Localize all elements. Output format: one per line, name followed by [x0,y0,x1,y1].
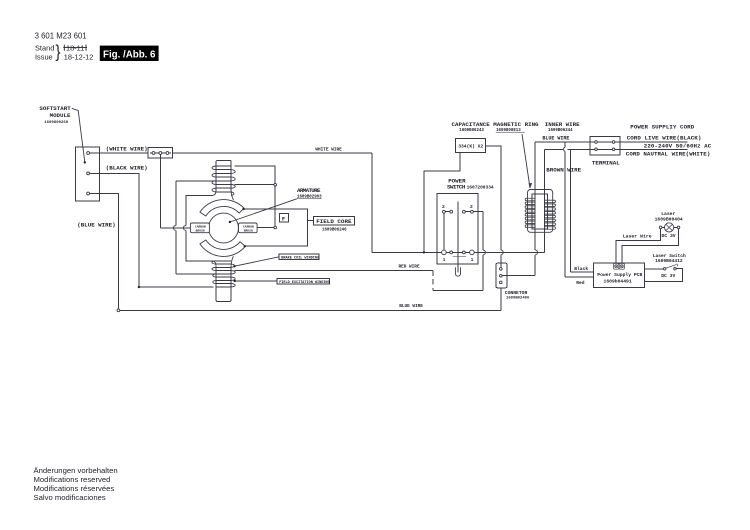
svg-text:}: } [56,43,62,62]
laser lamp pins [659,226,662,229]
svg-text:Power Supply PCB: Power Supply PCB [597,272,642,278]
svg-text:POWER SUPPLIY CORD: POWER SUPPLIY CORD [630,124,694,131]
lower winding left loops [212,261,216,284]
junction dot white wire capacitor node [423,251,425,253]
svg-text:INNER WIRE: INNER WIRE [545,121,580,128]
node wire from upper arc to field core [244,209,308,246]
hop of switch right vertical over main wire [483,250,485,255]
svg-text:Stand: Stand [35,44,54,53]
field arc lower [200,240,245,256]
brush right box [239,223,258,233]
motor core column upper section [216,160,231,191]
capacitor left lead [424,152,460,252]
svg-text:1609B00404: 1609B00404 [655,217,683,223]
softstart leader line [72,108,85,162]
lower winding right loops [231,264,235,287]
svg-text:334(K) X2: 334(K) X2 [458,143,483,149]
svg-text:F: F [282,215,286,222]
svg-text:CARBON: CARBON [195,226,206,229]
upper winding left loops [212,166,216,192]
svg-text:CONNETOR: CONNETOR [505,290,528,296]
junction dot field excitation leader [234,280,236,282]
magnetic ring inner box [532,194,548,229]
pcb laser terminal 1 [614,263,619,269]
svg-text:1609800260: 1609800260 [44,121,69,125]
wire red from lower winding [234,270,432,272]
softstart module box [75,147,99,201]
laser feed vertical from row2 (black to pcb) [570,149,572,272]
lower winding rungs [216,261,231,287]
svg-text:1609b04491: 1609b04491 [604,279,632,285]
junction dot black wire corner [138,286,140,288]
svg-text:CORD LIVE WIRE(BLACK): CORD LIVE WIRE(BLACK) [627,135,702,142]
core top-right flare curl [231,191,233,200]
svg-text:(BLACK WIRE): (BLACK WIRE) [106,165,148,172]
svg-text:BLUE WIRE: BLUE WIRE [542,136,569,142]
svg-text:MAGNETIC RING: MAGNETIC RING [493,121,539,128]
wire blue from ring to terminal [535,141,595,143]
field excitation leader [235,280,278,282]
svg-text:MODULE: MODULE [50,112,71,119]
switch lower terminals [442,250,447,255]
brake coil winding label box [279,254,319,260]
svg-text:CAPACITANCE: CAPACITANCE [452,121,491,128]
yoke hop over brush wire [183,226,185,231]
svg-text:FIELD EXCITATION WINDING: FIELD EXCITATION WINDING [279,281,329,285]
svg-text:1: 1 [471,257,474,263]
wire A vertical [175,181,177,226]
wire winding tap2 to circle1 [234,184,274,186]
switch upper terminals [443,210,446,213]
armature connector circle 2 [274,226,277,229]
svg-text:Modifications reserved: Modifications reserved [34,475,111,484]
svg-text:Fig. /Abb. 6: Fig. /Abb. 6 [103,49,156,60]
wire black from softstart [88,173,139,287]
hop of laser feed over row2 wire [564,147,566,151]
wire row2 to terminal [545,148,595,150]
laser lamp X [666,224,672,230]
terminal box pins [595,141,598,144]
svg-text:Issue: Issue [35,52,53,61]
magnetic ring leader line [522,134,530,188]
magnetic ring leader arrowhead [529,183,532,188]
wire A hop over brush wire [173,226,175,231]
terminal box [590,137,620,155]
svg-text:BRUSH: BRUSH [244,229,253,232]
svg-text:BRUSH: BRUSH [196,229,205,232]
field core tap [308,219,314,221]
upper winding rungs [216,166,231,192]
svg-text:RED WIRE: RED WIRE [399,264,420,269]
capacitor right lead to connector top pin [485,146,500,250]
svg-text:1609B04412: 1609B04412 [655,258,683,264]
svg-text:1609B02406: 1609B02406 [506,297,530,301]
wire blue from softstart [88,194,118,310]
wire winding tap1 to circle1 [234,166,275,184]
svg-text:1609B06243: 1609B06243 [459,129,484,133]
svg-text:BROWN WIRE: BROWN WIRE [546,166,581,173]
field excitation winding label box [277,278,329,284]
capacitor box [456,138,486,152]
laser switch blade [666,264,678,269]
svg-text:(BLUE WIRE): (BLUE WIRE) [77,221,115,228]
terminal row2 link [596,148,614,150]
laser lamp stubs [662,226,677,228]
svg-text:1609B02903: 1609B02903 [297,196,322,200]
switch right vertical (upper pole feed) [482,212,484,250]
motor core column lower section [216,265,231,301]
svg-text:SWITCH: SWITCH [447,183,466,190]
magnetic ring right coil [545,200,556,229]
cord neutral wire [614,148,688,150]
brake coil leader [235,257,280,266]
svg-text:Modifications réservées: Modifications réservées [34,484,115,493]
svg-text:Red: Red [576,280,585,286]
wire terminal-strip middle pin down to left brush [159,154,161,228]
field core label box [313,217,354,225]
magnetic ring left pass wire [534,142,536,250]
svg-text:WHITE WIRE: WHITE WIRE [315,148,342,153]
blue wire corner connector circle [117,309,120,312]
core bottom-right flare curl [231,256,233,265]
switch lower row wire [444,251,472,253]
wire A lower tap [176,273,217,275]
armature circle [209,213,239,243]
wire white from softstart to terminal strip and right [88,152,372,154]
wire white horizontal to power switch [372,251,444,253]
wire between circle1 and circle2 [274,186,276,226]
wire left brush feed [160,227,190,229]
laser lamp circle [665,223,674,232]
wire red into pcb [565,276,594,278]
main wire from switch to magnetic ring [472,251,545,253]
svg-text:220-240V 50/60Hz AC: 220-240V 50/60Hz AC [644,142,712,149]
wire switch upper right terminal to vertical [472,211,483,213]
brush left box [190,223,209,233]
laser wire 2 [622,229,679,264]
switch trigger [455,267,460,276]
terminal strip box [148,148,172,159]
svg-text:2: 2 [470,204,473,210]
figure label box [100,46,159,61]
svg-text:1609B06244: 1609B06244 [548,129,573,133]
terminal strip pins [152,152,155,155]
wire red dashed drop [432,271,434,291]
junction dot upper field arc [242,208,244,210]
svg-text:Black: Black [574,266,588,272]
pcb laser terminal 2 [619,263,624,269]
laser feed vertical from blue line (red to pcb) [564,142,566,147]
magnetic ring outer box [528,190,553,233]
switch actuator shaft [457,202,459,273]
F box [280,213,289,222]
capacitor lead hop over main wire [501,250,503,255]
power switch box [437,194,478,265]
magnetic ring left coil [525,198,535,227]
connector box [496,263,507,288]
wire right brush to connector circle2 [257,227,274,229]
svg-text:CORD NAUTRAL WIRE(WHITE): CORD NAUTRAL WIRE(WHITE) [626,151,711,158]
svg-text:1: 1 [443,257,446,263]
svg-text:1609800813: 1609800813 [496,129,521,133]
svg-text:Änderungen vorbehalten: Änderungen vorbehalten [34,466,118,475]
softstart pin 1 [87,152,90,155]
wire white re-draw through strip [150,152,171,154]
svg-text:ARMATURE: ARMATURE [297,187,321,194]
wire ring left pass to connector middle pin [502,275,535,277]
wire A upper tap (field winding left) [176,180,217,182]
wire blue long horizontal [120,309,501,311]
svg-text:CARBON: CARBON [243,226,254,229]
yoke top flare curl [213,191,216,195]
junction dot brake coil leader [233,265,235,267]
laser switch return wire [644,269,682,282]
svg-text:Laser: Laser [661,211,675,217]
svg-text:BRAKE COIL WINDING: BRAKE COIL WINDING [281,256,319,260]
ring left pass hop over main wire [535,250,537,255]
wire red bottom run to switch right vertical [433,289,483,291]
svg-text:FIELD CORE: FIELD CORE [316,218,352,225]
svg-text:1607200334: 1607200334 [467,184,494,190]
svg-text:DC 3V: DC 3V [661,273,675,279]
armature leader line [230,199,297,222]
wire white vertical down at x=372.2 [371,153,373,252]
switch mechanical bar [452,255,466,257]
magnetic ring right pass wire [544,149,546,252]
svg-text:TERMINAL: TERMINAL [592,159,620,166]
svg-text:BLUE WIRE: BLUE WIRE [399,304,423,309]
yoke bottom flare curl [213,261,216,265]
svg-text:Laser Switch: Laser Switch [653,253,686,259]
upper winding right loops [231,170,235,196]
junction dot softstart leader [84,161,86,163]
svg-text:1609B06246: 1609B06246 [322,229,347,233]
armature connector circle 1 [274,183,277,186]
laser switch feed wire [644,268,663,270]
wire black into pcb [571,271,594,273]
svg-text:18-12-12: 18-12-12 [64,52,94,61]
svg-text:(WHITE WIRE): (WHITE WIRE) [106,145,148,152]
svg-text:3 601 M23 601: 3 601 M23 601 [35,31,87,40]
cord live wire [614,141,688,143]
motor yoke left bracket [186,195,213,225]
softstart pin 3 [87,192,90,195]
softstart pin 2 [87,172,90,175]
svg-text:2: 2 [442,204,445,210]
svg-text:DC 3V: DC 3V [662,233,676,239]
svg-text:Laser Wire: Laser Wire [623,234,652,240]
connector bottom pin to blue wire [500,288,502,311]
wire black horizontal to lower winding [139,286,214,288]
field arc upper [200,200,244,216]
junction dot lower field arc [244,245,246,247]
switch left pole link [443,212,445,253]
laser switch pins [664,268,666,270]
svg-text:Salvo modificaciones: Salvo modificaciones [34,493,106,502]
terminal row1 link [596,141,614,143]
switch upper row links [444,211,472,213]
svg-text:18-11: 18-11 [66,44,84,53]
power supply pcb box [594,263,645,287]
laser wire 1 [616,229,660,264]
junction dot armature leader [229,221,231,223]
connector pins [500,268,503,271]
